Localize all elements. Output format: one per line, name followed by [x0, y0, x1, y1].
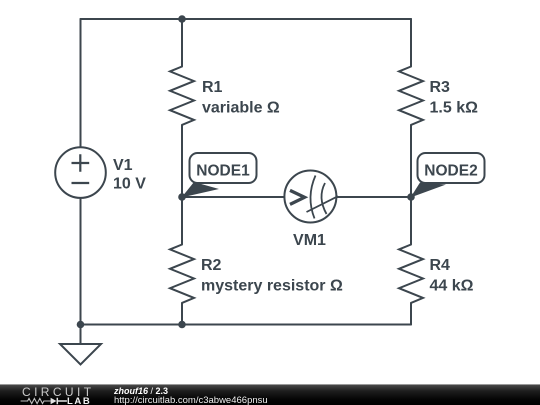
- wire right branch between NODE2 and R4: [410, 197, 412, 245]
- node NODE1 flag tail: [182, 182, 220, 198]
- resistor R2: [170, 245, 194, 303]
- wire right branch top lead: [410, 19, 412, 67]
- wire right branch between R3 and NODE2: [410, 125, 412, 197]
- footer url text: [114, 396, 268, 405]
- node NODE2 junction dot: [407, 193, 415, 201]
- svg-text:mystery resistor Ω: mystery resistor Ω: [201, 278, 343, 295]
- svg-text:R4: R4: [430, 257, 451, 274]
- CircuitLab logo word LAB: [67, 397, 91, 405]
- node NODE1 flag box: [190, 153, 257, 183]
- footer user / version text: [114, 386, 168, 396]
- resistor R3: [399, 67, 423, 125]
- ground: [60, 325, 101, 365]
- svg-text:variable Ω: variable Ω: [202, 100, 280, 117]
- voltmeter VM1: [284, 171, 338, 223]
- node junction dot ground rail middle: [178, 321, 186, 329]
- CircuitLab footer banner: [0, 384, 540, 405]
- wire middle branch top lead: [181, 19, 183, 67]
- node NODE2 flag tail: [411, 183, 447, 198]
- CircuitLab logo word CIRCUIT: [22, 386, 94, 398]
- svg-text:NODE1: NODE1: [196, 162, 250, 179]
- wire middle branch between R1 and NODE1: [181, 125, 183, 197]
- wire top rail: [81, 18, 412, 20]
- svg-text:10 V: 10 V: [113, 176, 146, 193]
- wire bottom rail: [81, 324, 412, 326]
- wire left rail lower (V1 bottom lead): [80, 198, 82, 325]
- CircuitLab logo resistor-diode glyph: [20, 397, 68, 405]
- node junction dot ground rail left: [77, 321, 85, 329]
- svg-text:R3: R3: [430, 79, 451, 96]
- resistor R4: [399, 245, 423, 303]
- svg-text:VM1: VM1: [293, 232, 326, 249]
- node junction dot top rail: [178, 15, 186, 23]
- resistor R1: [170, 67, 194, 125]
- wire middle branch bottom lead: [181, 303, 183, 325]
- wire NODE1 to VM1: [182, 196, 284, 198]
- svg-text:1.5 kΩ: 1.5 kΩ: [430, 100, 479, 117]
- svg-text:44 kΩ: 44 kΩ: [430, 278, 474, 295]
- svg-text:R2: R2: [201, 257, 222, 274]
- wire right branch bottom lead: [410, 303, 412, 325]
- node NODE1 junction dot: [178, 193, 186, 201]
- svg-text:NODE2: NODE2: [424, 162, 477, 179]
- voltage source V1: [55, 147, 106, 198]
- svg-text:R1: R1: [202, 79, 223, 96]
- wire VM1 to NODE2: [336, 196, 411, 198]
- node NODE2 flag box: [418, 153, 485, 183]
- svg-text:V1: V1: [113, 157, 133, 174]
- wire middle branch between NODE1 and R2: [181, 197, 183, 245]
- wire left rail upper (V1 top lead): [80, 19, 82, 147]
